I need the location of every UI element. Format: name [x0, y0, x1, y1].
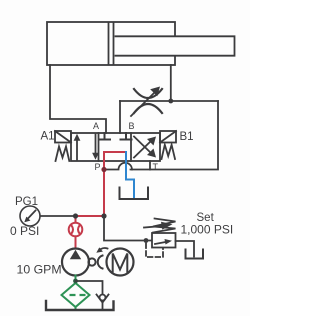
flow control FC1 adjust arrow — [131, 87, 160, 117]
relief valve RV1 body — [152, 233, 176, 248]
relief valve RV1 internal arrow — [155, 239, 172, 245]
valve V1 body — [71, 133, 160, 161]
valve V1 left box down arrow — [92, 135, 99, 160]
wire relief feed — [104, 216, 152, 241]
solenoid B1 — [160, 131, 176, 143]
relief valve RV1 spring — [153, 219, 176, 233]
cylinder piston — [109, 23, 114, 64]
node relief pilot tap — [144, 238, 149, 243]
wire gauge line — [41, 215, 76, 217]
svg-text:1,000 PSI: 1,000 PSI — [181, 223, 234, 237]
wire hump crossover to P node — [104, 163, 132, 170]
filter F1 — [62, 283, 90, 307]
wire rod-end to flow control node — [170, 65, 172, 101]
wire drain to check valve — [76, 281, 103, 295]
wire tank path blue — [126, 152, 134, 199]
svg-text:PG1: PG1 — [15, 196, 38, 208]
svg-text:0 PSI: 0 PSI — [10, 224, 39, 238]
svg-text:10 GPM: 10 GPM — [17, 263, 62, 277]
valve V1 center blocked port A — [99, 133, 110, 140]
spring right — [162, 145, 176, 159]
valve V1 center blocked port B — [121, 133, 132, 140]
wire T stub — [149, 161, 151, 170]
coupling shaft — [88, 247, 107, 268]
svg-text:A1: A1 — [41, 131, 55, 143]
node junction P/T line — [101, 167, 106, 172]
wire pump suction green — [75, 276, 77, 311]
node dot2 — [101, 213, 106, 218]
node dot1 — [73, 213, 78, 218]
pressure gauge PG1 — [20, 206, 40, 226]
svg-text:B1: B1 — [180, 131, 194, 143]
wire right drop to tank line — [131, 101, 219, 170]
valve V1 left box up arrow — [74, 134, 81, 160]
relief valve RV1 adjust arrow — [144, 222, 173, 230]
spring left — [56, 147, 70, 162]
check valve CV1 — [97, 295, 109, 310]
solenoid A1 — [55, 131, 71, 143]
node drain junction — [73, 279, 78, 284]
wire B drop — [119, 101, 121, 133]
svg-text:B: B — [129, 121, 135, 131]
pump P1 — [62, 249, 89, 276]
tank under valve — [120, 188, 149, 200]
svg-text:A: A — [93, 121, 99, 131]
motor M1 — [107, 249, 134, 276]
flow control FC1 restrictor arcs — [134, 89, 162, 98]
node at rod-end junction — [168, 99, 173, 104]
svg-text:T: T — [153, 162, 159, 172]
relief valve RV1 pilot dashed — [146, 244, 163, 258]
tank reservoir main — [46, 301, 114, 310]
wire pressure line P red — [76, 152, 127, 249]
cylinder rod — [116, 36, 235, 55]
svg-text:P: P — [95, 162, 101, 172]
wire cap-end to valve A — [50, 65, 106, 133]
cylinder C1 body — [47, 22, 175, 65]
wire relief outlet — [176, 241, 195, 257]
wire flow control line — [120, 100, 218, 102]
tank relief — [186, 250, 204, 259]
valve V1 right box cross arrows — [134, 137, 156, 158]
coupling quick-disconnect red — [69, 223, 83, 237]
